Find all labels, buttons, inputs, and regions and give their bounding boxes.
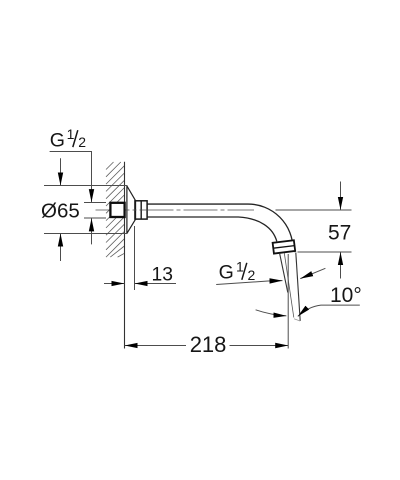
- dimension 13: arrows: [104, 283, 124, 285]
- svg-text:1: 1: [67, 126, 75, 142]
- centerline of arm: [96, 209, 255, 211]
- svg-text:1: 1: [236, 259, 244, 275]
- dimension 57: arrows: [340, 182, 342, 210]
- label G1/2 outlet text: [219, 259, 256, 284]
- threaded inlet G1/2 in wall: [110, 203, 124, 217]
- svg-text:218: 218: [190, 332, 227, 357]
- vertical projection reference line at outlet: [287, 254, 289, 349]
- tube outline: top and outer bend: [147, 204, 295, 252]
- label G1/2 top-left text: [50, 126, 86, 151]
- svg-text:G: G: [219, 262, 234, 284]
- svg-text:2: 2: [78, 134, 86, 150]
- dimension 10 degrees: leader and right arrow: [298, 305, 360, 316]
- svg-text:13: 13: [152, 265, 173, 286]
- svg-text:G: G: [50, 129, 65, 151]
- wall hatching: [106, 162, 124, 257]
- label G1/2 outlet leader with arrow: [216, 281, 282, 285]
- outlet cone right edge: [296, 253, 300, 321]
- dimension 10 degrees: left arc arrow: [256, 310, 287, 316]
- dimension 13: flange front extension line: [134, 226, 136, 290]
- dimension 57: extension lines: [276, 209, 352, 211]
- wall line: [124, 162, 126, 349]
- svg-text:Ø65: Ø65: [41, 200, 80, 223]
- tube outline: bottom and inner bend: [147, 217, 277, 241]
- shower arm tube (pipe, bend, outlet cone): [147, 204, 300, 321]
- inlet thread lower arrow: [91, 218, 93, 244]
- svg-text:10°: 10°: [330, 284, 362, 307]
- outlet cone left edge: [280, 254, 288, 293]
- svg-text:57: 57: [328, 222, 351, 245]
- dimension Ø65: extension lines: [44, 185, 128, 187]
- collar nut on outlet: [273, 240, 296, 253]
- svg-text:2: 2: [248, 267, 256, 283]
- knurled connector ring: [135, 201, 147, 219]
- flange front face thick line: [134, 200, 136, 220]
- outlet thread right arrow: [300, 268, 325, 278]
- inlet thread extension lines: [84, 202, 106, 204]
- wall flange (escutcheon): [127, 186, 135, 234]
- dimension 218: dimension line left segment: [125, 345, 186, 347]
- label G1/2 top-left leader: [50, 152, 92, 203]
- dimension 218: dimension line right segment: [230, 345, 289, 347]
- outlet tip: [294, 319, 300, 321]
- outlet axis line (10 deg): [284, 253, 294, 318]
- dimension Ø65: arrows: [60, 158, 62, 185]
